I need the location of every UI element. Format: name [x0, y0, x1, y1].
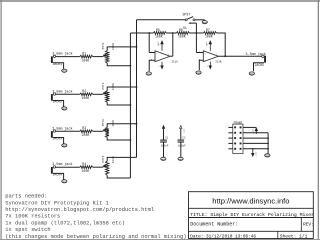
svg-text:GND: GND [62, 144, 67, 147]
svg-text:7x 100K resistors: 7x 100K resistors [5, 214, 60, 220]
junction node IC1A inverting input / bus A / R5 [148, 32, 150, 34]
wire bus B top to switch S1 [137, 19, 186, 21]
wire jack J2 sleeve to ground [53, 101, 64, 107]
wire jack J1 sleeve to ground [53, 63, 64, 69]
svg-text:100uF: 100uF [161, 145, 169, 148]
wire jack J5 sleeve to ground [254, 63, 265, 72]
ground GND of IC1A non-inverting input [146, 72, 151, 76]
potentiometer POT4 100K [102, 155, 115, 175]
svg-text:1x spst switch: 1x spst switch [5, 227, 50, 233]
title block document number row [190, 222, 314, 228]
ground GND of jack J5 [249, 72, 254, 76]
svg-text:Synovatron DIY Prototyping Kit: Synovatron DIY Prototyping Kit 1 [5, 200, 109, 206]
svg-text:POT4: POT4 [102, 155, 105, 162]
note parts list text block [5, 194, 186, 240]
junction pot POT2 bottom on bus A [130, 104, 132, 106]
ground GND of jack J4 [62, 180, 67, 184]
svg-text:JACK5: JACK5 [255, 63, 265, 67]
svg-text:http://synovatron.blogspot.com: http://synovatron.blogspot.com/p/product… [5, 207, 154, 213]
resistor R2 100K [80, 89, 93, 100]
svg-text:POT1: POT1 [102, 42, 105, 49]
svg-text:100K: 100K [112, 120, 115, 127]
wire IC1A non-inverting input to ground [149, 60, 155, 71]
svg-text:GND: GND [179, 158, 184, 161]
svg-text:GND: GND [147, 73, 152, 76]
svg-text:POT3: POT3 [102, 119, 105, 126]
svg-text:-12V: -12V [255, 151, 258, 157]
wire pot POT4 top terminal to bus B [107, 157, 136, 161]
ground GND of jack J1 [62, 69, 67, 73]
power pin 4 -12V arrow of IC1B [206, 62, 211, 69]
svg-text:GND: GND [250, 73, 255, 76]
svg-text:IC1A: IC1A [172, 61, 179, 64]
wire power header pin 1 to +12V [243, 126, 256, 128]
wire IC1A output node down to output [172, 33, 174, 56]
wire bus A top to IC1A inverting input node [130, 32, 149, 34]
junction pot POT1 bottom on bus A [130, 65, 132, 67]
jack J2 3.5mm input jack JACK2 [51, 89, 73, 103]
svg-text:R7: R7 [206, 28, 210, 32]
wire IC1B non-inverting input to ground [199, 60, 203, 70]
wire bus B (normal mix bus) vertical [136, 20, 138, 158]
junction pot POT3 top on bus B [136, 123, 138, 125]
page left black border [1, 0, 2, 240]
wire switch S1 right contact to ground [195, 19, 205, 21]
junction IC1A output node [172, 32, 174, 34]
resistor R1 100K [80, 51, 93, 62]
potentiometer POT1 100K [102, 42, 115, 63]
wire jack J3 tip to resistor R3 [56, 130, 80, 132]
power +12V arrow at header [252, 128, 258, 134]
wire pot POT2 bottom terminal to bus A [107, 102, 130, 105]
svg-text:+12V: +12V [205, 41, 208, 47]
svg-text:GND: GND [197, 72, 202, 75]
page top gray border [0, 0, 320, 2]
ground GND of switch S1 [202, 21, 207, 25]
page right gray border [318, 0, 319, 240]
junction IC1B output feedback node [224, 55, 226, 57]
power pin 4 -12V arrow of IC1A [158, 62, 163, 69]
wire R6 to IC1B inverting node [189, 32, 196, 34]
resistor R5 100K feedback of IC1A [149, 28, 166, 39]
capacitor C2 100uF [178, 126, 187, 157]
svg-text:-12V: -12V [183, 128, 186, 134]
svg-text:1x dual opamp (tl072,tl082,lm3: 1x dual opamp (tl072,tl082,lm358 etc) [5, 220, 125, 226]
potentiometer POT3 100K [102, 119, 115, 137]
wire IC1B output to output jack [218, 55, 261, 57]
svg-text:GND: GND [62, 107, 67, 110]
svg-text:SPST: SPST [183, 12, 191, 16]
svg-text:IC1B: IC1B [215, 61, 222, 64]
ground GND of IC1B non-inverting input [196, 71, 201, 75]
svg-text:100K: 100K [155, 34, 163, 38]
wire resistor R4 to pot POT4 wiper [93, 166, 103, 168]
potentiometer POT2 100K [102, 82, 115, 102]
op-amp IC1A [151, 50, 178, 63]
jack J1 3.5mm input jack JACK1 [51, 52, 73, 66]
title block frame [189, 192, 314, 239]
wire node at switch left contact to IC1B input net (arrow stub) [188, 22, 196, 52]
wire jack J4 tip to resistor R4 [56, 166, 80, 168]
svg-text:100K: 100K [205, 34, 213, 38]
svg-text:GND: GND [265, 154, 270, 157]
junction IC1B inverting input node [196, 32, 198, 34]
wire jack J3 sleeve to ground [53, 138, 64, 144]
title block date and sheet row [190, 234, 307, 240]
wire jack J4 sleeve to ground [53, 173, 64, 179]
junction pot POT1 top on bus B [136, 46, 138, 48]
svg-text:Date: 31/12/2010 13:06:46: Date: 31/12/2010 13:06:46 [190, 235, 256, 240]
wire resistor R3 to pot POT3 wiper [93, 130, 103, 132]
switch S1 SPST mode switch [183, 12, 196, 30]
svg-text:(this changes mode between pol: (this changes mode between polarizing an… [5, 234, 186, 240]
svg-text:S1: S1 [183, 26, 187, 30]
svg-text:+12V: +12V [157, 41, 160, 47]
wire resistor R2 to pot POT2 wiper [93, 93, 103, 95]
jack J4 3.5mm input jack JACK4 [51, 162, 73, 176]
wire pot POT4 bottom terminal to bus A [107, 175, 130, 178]
svg-text:GND: GND [161, 158, 166, 161]
power pin 8 +12V arrow of IC1A [157, 41, 164, 51]
wire pot POT1 bottom terminal to bus A [107, 63, 130, 66]
svg-text:parts needed:: parts needed: [5, 194, 47, 200]
junction pot POT2 top on bus B [136, 86, 138, 88]
svg-text:R2: R2 [82, 89, 86, 93]
wire IC1A inv node down to op-amp [148, 33, 150, 53]
svg-text:100K: 100K [82, 133, 90, 137]
ground GND of jack J2 [62, 107, 67, 111]
resistor R7 100K feedback of IC1B [196, 28, 216, 39]
svg-text:100K: 100K [178, 34, 186, 38]
svg-text:C2: C2 [182, 137, 186, 140]
svg-text:100K: 100K [82, 58, 90, 62]
svg-text:http://www.dinsync.info: http://www.dinsync.info [212, 197, 289, 206]
wire bus A (inverting mix bus) vertical [129, 33, 131, 178]
page bottom gray border [0, 239, 320, 240]
resistor R4 100K [80, 162, 93, 173]
power -12V arrow at header [252, 148, 258, 157]
wire power header ground pins bundle [243, 133, 269, 154]
resistor R3 100K [80, 126, 93, 137]
wire R5 to IC1A output node [166, 32, 173, 34]
ground GND of capacitor C1 [161, 157, 166, 161]
svg-text:C1: C1 [165, 137, 169, 140]
ground GND of capacitor C2 [178, 157, 183, 161]
ground GND of jack J3 [62, 144, 67, 148]
wire pot POT1 top terminal to bus B [107, 47, 136, 51]
svg-text:GND: GND [203, 21, 208, 24]
svg-text:R5: R5 [156, 28, 160, 32]
wire jack J2 tip to resistor R2 [56, 93, 80, 95]
svg-text:GND: GND [62, 70, 67, 73]
wire IC1A inverting input [149, 52, 155, 54]
svg-text:R4: R4 [82, 162, 86, 166]
svg-text:R1: R1 [82, 51, 86, 55]
jack J5 3.5mm output jack JACK5 [246, 52, 267, 67]
svg-text:Document Number:: Document Number: [190, 222, 238, 228]
jack J3 3.5mm input jack JACK3 [51, 126, 73, 140]
wire R7 to IC1B output [217, 33, 226, 56]
svg-text:R6: R6 [179, 28, 183, 32]
svg-text:POT2: POT2 [102, 82, 105, 89]
wire pot POT3 top terminal to bus B [107, 124, 136, 128]
svg-text:TITLE: Simple DIY Eurorack Pol: TITLE: Simple DIY Eurorack Polarizing Mi… [190, 212, 314, 218]
svg-text:100K: 100K [82, 96, 90, 100]
power pin 8 +12V arrow of IC1B [205, 41, 212, 51]
wire IC1B inverting input [196, 52, 203, 54]
connector CONN1 POWER header [228, 121, 243, 153]
svg-text:R3: R3 [82, 126, 86, 130]
svg-text:100K: 100K [112, 43, 115, 50]
svg-text:100uF: 100uF [178, 145, 186, 148]
schematic drawing group [51, 12, 270, 183]
junction pot POT3 bottom on bus A [130, 139, 132, 141]
op-amp IC1B [199, 50, 222, 63]
capacitor C1 100uF [160, 126, 169, 157]
svg-text:100K: 100K [82, 169, 90, 173]
svg-text:GND: GND [62, 180, 67, 183]
resistor R6 100K between IC1A out and IC1B in [173, 28, 190, 39]
svg-text:REV:: REV: [303, 222, 314, 228]
wire resistor R1 to pot POT1 wiper [93, 56, 103, 58]
ground GND of power header [265, 154, 270, 158]
svg-text:Sheet: 1/1: Sheet: 1/1 [280, 234, 308, 240]
wire jack J1 tip to resistor R1 [56, 56, 80, 58]
wire pot POT3 bottom terminal to bus A [107, 137, 130, 140]
svg-text:100K: 100K [112, 83, 115, 90]
wire IC1A output [170, 55, 173, 57]
wire pot POT2 top terminal to bus B [107, 87, 136, 91]
